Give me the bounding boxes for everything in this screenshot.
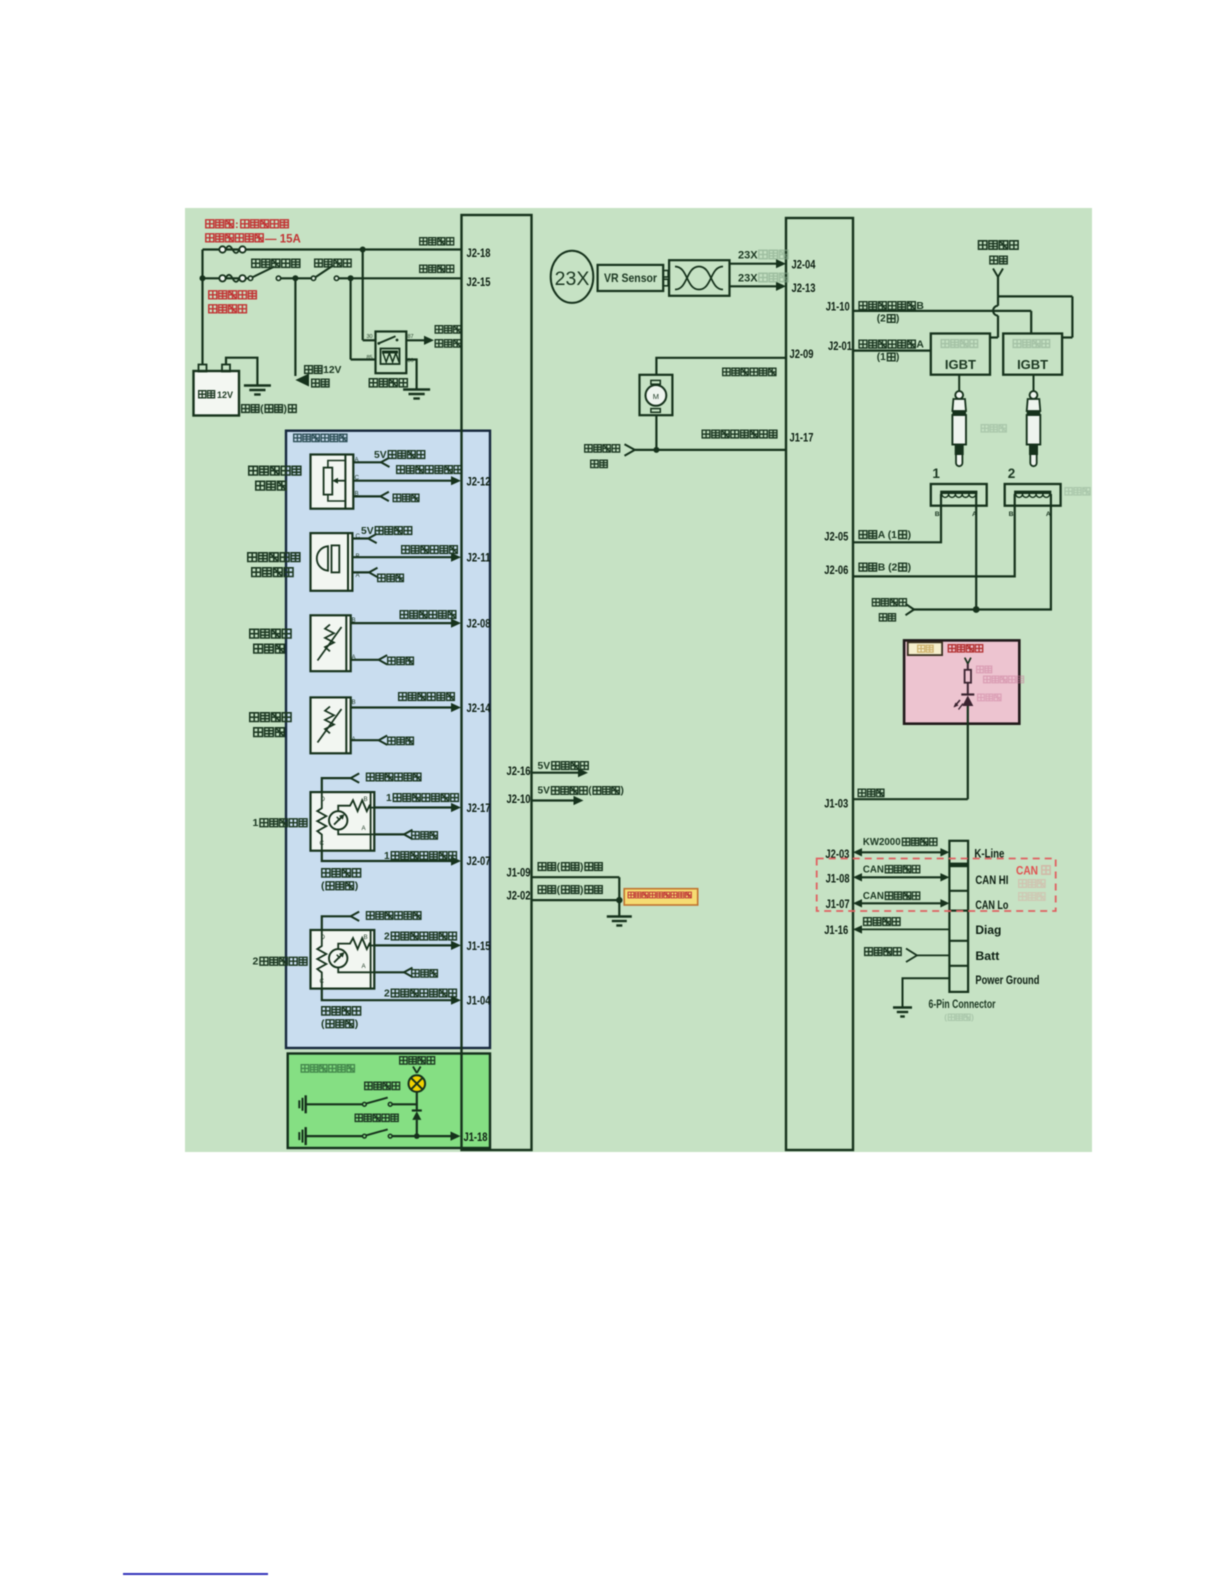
note single point ground (yellow) — [624, 889, 698, 905]
svg-text:KW2000: KW2000 — [863, 837, 901, 848]
label 摩车12V电源 — [305, 365, 342, 387]
sensor O2 #2 2缸氧传感器 label — [253, 956, 308, 968]
svg-text:CAN: CAN — [1016, 866, 1038, 878]
svg-text:(: ( — [557, 885, 561, 896]
wire pump control J2-09 — [656, 358, 786, 375]
pin J1-15 — [467, 939, 491, 953]
wire CAN low J1-07 — [853, 899, 949, 907]
wire O2#2 relay feed — [322, 912, 359, 930]
pin J1-16 — [824, 923, 848, 937]
label 信号地 (TPS) — [393, 494, 419, 501]
svg-text:5V: 5V — [361, 526, 374, 537]
svg-text:J2-06: J2-06 — [824, 563, 848, 577]
pin J2-06 — [824, 563, 848, 577]
label 主继电器输出 (top) — [435, 326, 461, 347]
label 5V参考电压接地（信号地） — [538, 786, 624, 797]
svg-text:CAN HI: CAN HI — [975, 873, 1008, 887]
svg-text:D: D — [321, 796, 326, 803]
svg-text:12V: 12V — [217, 390, 233, 400]
svg-text:J2-18: J2-18 — [467, 246, 491, 260]
svg-text:J2-13: J2-13 — [792, 281, 816, 295]
wire MAP signal ground — [352, 568, 377, 577]
spark plug #2 — [1027, 375, 1041, 467]
wire 5V ref out — [532, 768, 589, 777]
svg-text:30: 30 — [367, 334, 373, 340]
wire system ground 1 — [532, 876, 620, 878]
svg-text:5V: 5V — [538, 761, 551, 772]
wire injector2 B to J2-06 — [853, 494, 1015, 576]
wire resistor to LED — [967, 683, 969, 694]
wire cluster lamp — [967, 664, 969, 670]
label 信号地 (MAP) — [378, 574, 404, 581]
wire relay pin86 to ground — [406, 360, 416, 390]
svg-text:J1-18: J1-18 — [464, 1130, 488, 1144]
diagram background — [185, 208, 1092, 1152]
sensor O2 #1 symbol — [311, 792, 375, 851]
label 2缸氧传感器信号 — [384, 931, 456, 942]
wire system ground 2 — [532, 877, 623, 916]
sensor CHT symbol — [311, 697, 357, 753]
pin J2-18 — [467, 246, 491, 260]
wire O2#1 signal to J2-17 — [374, 803, 461, 812]
svg-text:IGBT: IGBT — [1017, 357, 1048, 372]
wire pump return — [635, 415, 786, 453]
label 主继电器输出 (pump) — [585, 445, 620, 468]
label KW2000串行数据 — [863, 837, 937, 848]
wire tap motorcycle 12V — [294, 278, 296, 376]
svg-text:(: ( — [321, 1018, 325, 1030]
label 点火线圈驱动B — [859, 301, 924, 325]
note fuse rating (red) — [206, 219, 301, 246]
svg-text:): ) — [355, 1018, 359, 1030]
svg-text:B: B — [935, 511, 940, 518]
pin J1-10 — [826, 300, 850, 314]
svg-text:): ) — [896, 314, 899, 325]
switch input box — [288, 1054, 490, 1149]
svg-text:1: 1 — [932, 466, 940, 481]
wire to relay pin30 — [363, 250, 376, 341]
label 1缸氧传感器信号 — [386, 793, 458, 804]
label 5V参考电压 (MAP) — [361, 526, 412, 537]
pin J2-02 — [507, 889, 531, 903]
label 1缸氧传感器加热 — [384, 851, 456, 862]
wire main relay to injectors — [914, 494, 1051, 613]
svg-text:): ) — [908, 530, 911, 541]
svg-text:J2-07: J2-07 — [467, 854, 491, 868]
svg-text:J1-15: J1-15 — [467, 939, 491, 953]
wire ignition power (to J2-15) — [203, 266, 462, 282]
label 节气门位置信号 — [397, 466, 462, 474]
label CAN线信号高 — [863, 864, 920, 875]
svg-text:1: 1 — [386, 793, 392, 804]
label 油泵控制信号 — [723, 368, 776, 375]
svg-text:CAN: CAN — [863, 864, 884, 875]
svg-text:J2-08: J2-08 — [467, 617, 491, 631]
svg-text::: : — [235, 219, 239, 231]
svg-text:Power Ground: Power Ground — [975, 973, 1039, 987]
pin J2-14 — [467, 701, 491, 715]
wire O2#1 relay feed — [322, 773, 359, 792]
relay 主继电器 — [367, 332, 414, 374]
svg-text:): ) — [908, 563, 911, 574]
sensor IAT 进气温度传感器 label — [250, 629, 291, 653]
wire power ground — [903, 978, 950, 1007]
pin J1-07 — [826, 897, 850, 911]
svg-text:J2-05: J2-05 — [824, 530, 848, 544]
sensor IAT symbol — [311, 615, 357, 671]
svg-text:J1-16: J1-16 — [824, 923, 848, 937]
ground (diagnostic) — [893, 1008, 912, 1017]
wire relay output 87 — [406, 339, 424, 341]
instrument box — [904, 640, 1019, 723]
pin J2-12 — [467, 475, 491, 489]
wire battery feed — [200, 250, 206, 365]
label 信号地 (O2#1) — [412, 832, 438, 839]
wire MAP signal to J2-11 — [352, 553, 461, 562]
label 2缸氧传感器加热 — [384, 988, 456, 999]
svg-text:): ) — [971, 1012, 974, 1022]
label 氧传感器(加热型) #2 — [321, 1007, 361, 1030]
svg-text:1: 1 — [253, 817, 259, 829]
sensor O2 #1 1缸氧传感器 label — [253, 817, 308, 829]
connector nub — [663, 271, 668, 286]
chassis ground (clutch switch) — [299, 1127, 305, 1145]
label 喷嘴A (1缸) — [859, 530, 911, 541]
wire O2#2 signal ground — [374, 968, 412, 977]
svg-text:): ) — [896, 352, 899, 363]
wire relay feed to IGBTs — [990, 277, 1072, 338]
label 信号地 (O2#2) — [412, 970, 438, 977]
svg-text:1: 1 — [384, 851, 390, 862]
ground (relay) — [403, 390, 430, 399]
pin J2-04 — [792, 258, 816, 272]
svg-text:J1-09: J1-09 — [507, 866, 531, 880]
label 电瓶电源 (Batt) — [865, 948, 901, 956]
indicator lamp — [409, 1075, 426, 1092]
wire O2#2 signal to J1-15 — [374, 941, 461, 950]
ECU connector column J2/J1 (right) — [786, 218, 853, 1150]
svg-text:): ) — [580, 862, 583, 873]
wire MAP 5V ref — [352, 534, 376, 543]
title 模拟信号输入 — [294, 434, 347, 441]
label 接插件 (faint) — [944, 1012, 974, 1022]
feed chevron (cluster) — [965, 658, 971, 664]
sensor MAP symbol — [311, 533, 361, 591]
arrow to J1-18 — [451, 1132, 461, 1141]
svg-text:B: B — [364, 796, 368, 803]
pin J2-13 — [792, 281, 816, 295]
svg-text:IGBT: IGBT — [945, 357, 976, 372]
svg-text:5V: 5V — [538, 786, 551, 797]
svg-text:): ) — [621, 786, 624, 797]
label 空档开关 — [365, 1082, 400, 1089]
svg-text:6-Pin Connector: 6-Pin Connector — [929, 997, 996, 1011]
pin J2-05 — [824, 530, 848, 544]
svg-text:): ) — [580, 885, 583, 896]
label 电源（系统）搭地 — [538, 862, 602, 873]
pin J2-10 — [507, 792, 531, 806]
label 缸头温度信号 — [399, 693, 455, 701]
svg-text:J2-09: J2-09 — [790, 347, 814, 361]
svg-text:J2-14: J2-14 — [467, 701, 491, 715]
pin J2-11 — [467, 551, 491, 565]
svg-text:23X: 23X — [555, 268, 590, 290]
label 诊断开关 — [864, 918, 900, 926]
switch kill 熄火开关 — [315, 259, 351, 267]
switch ignition main 点火总开关 — [252, 259, 300, 267]
twisted pair box — [669, 260, 729, 296]
svg-text:M: M — [653, 392, 659, 401]
svg-text:J1-07: J1-07 — [826, 897, 850, 911]
svg-text:J2-12: J2-12 — [467, 475, 491, 489]
wire CAN high J1-08 — [853, 873, 949, 881]
wire TPS signal to J2-12 — [353, 476, 461, 485]
label 5V参考电压 (TPS) — [374, 450, 425, 461]
wire coil drive A J2-01 — [853, 350, 931, 352]
label 点火线圈驱动A — [859, 340, 924, 364]
hyperlink underline — [123, 1573, 268, 1575]
pin J1-17 — [790, 431, 814, 445]
wire diode to J1-18 node — [414, 1120, 420, 1139]
pin label CAN HI — [975, 873, 1008, 887]
feed chevron (ign relay) — [993, 269, 1003, 278]
wire coil drive B J1-10 — [853, 311, 1031, 334]
injector #2 (喷嘴B) — [1005, 484, 1061, 518]
label 信号地 (CHT) — [388, 737, 414, 744]
svg-text:(: ( — [557, 862, 561, 873]
svg-text:D: D — [321, 934, 326, 941]
wire O2#1 heater to J2-07 — [322, 851, 461, 866]
label 点火电源 — [420, 265, 454, 272]
wire battery power (Batt pin) — [917, 954, 949, 956]
label 电瓶电源 — [420, 238, 454, 245]
feed chevron relay output (pump) — [625, 444, 635, 456]
svg-text:B: B — [916, 301, 924, 312]
fuel pump motor — [640, 375, 673, 415]
svg-text:87: 87 — [408, 334, 414, 340]
svg-text:J2-02: J2-02 — [507, 889, 531, 903]
svg-text:): ) — [284, 404, 287, 415]
label 离合器开关 — [355, 1114, 398, 1121]
feed chevron (lamp) — [413, 1067, 421, 1074]
wire to relay pin85 — [351, 278, 376, 359]
svg-text:J1-04: J1-04 — [467, 994, 491, 1008]
note spare fuse (red) — [209, 291, 256, 313]
ignition coil IGBT #2 — [1003, 334, 1062, 375]
switch neutral 空档开关 — [306, 1098, 417, 1107]
label 油泵控制信号回路 — [702, 430, 777, 438]
label 点火电源 (lamp feed) — [400, 1057, 435, 1064]
label 主继电器输出 (O2#2) — [367, 912, 421, 920]
switch clutch 离合器开关 — [306, 1129, 452, 1138]
label 电源（系统）接地 — [538, 885, 602, 896]
wire LED to J1-03 — [853, 706, 968, 799]
label 点火电源 (cluster, red) — [948, 645, 982, 652]
svg-text:5V: 5V — [374, 450, 387, 461]
label 主继电器输出 (O2#1) — [367, 773, 421, 781]
label cylinder 1 — [932, 466, 940, 481]
tag 仪表 — [908, 642, 942, 655]
label 6-Pin Connector — [929, 997, 996, 1011]
wire 23X signal - to J2-13 — [730, 282, 787, 291]
arrow relay output — [424, 336, 434, 345]
label 电源(系统)地 — [242, 404, 297, 415]
pin J1-04 — [467, 994, 491, 1008]
sensor CHT 缸头温度传感器 label — [250, 713, 291, 737]
svg-text:12V: 12V — [323, 365, 341, 376]
label 主继电器输出 (ign) — [979, 241, 1019, 264]
label CAN线信号低 — [863, 891, 920, 902]
sensor O2 #2 symbol — [311, 930, 375, 989]
sensor MAP 进气压力温度传感器 label — [248, 553, 300, 577]
svg-text:(: ( — [321, 880, 325, 892]
svg-text:2: 2 — [1008, 466, 1016, 481]
label 喷嘴B (2缸) — [859, 563, 911, 574]
wire 23X signal + to J2-04 — [730, 259, 787, 268]
LED fault lamp — [954, 695, 975, 710]
svg-text:J2-15: J2-15 — [467, 275, 491, 289]
svg-text:(1: (1 — [877, 352, 886, 363]
chassis ground (neutral switch) — [299, 1095, 305, 1113]
svg-text:A (1: A (1 — [878, 530, 897, 541]
label 氧传感器(加热型) #1 — [321, 869, 361, 892]
svg-text:C: C — [320, 978, 325, 985]
label 主继电器 (relay) — [369, 379, 407, 387]
svg-text:C: C — [320, 840, 325, 847]
svg-text:J2-01: J2-01 — [828, 339, 852, 353]
wire battery negative to ground — [226, 358, 257, 386]
svg-text:2: 2 — [384, 931, 390, 942]
sensor TPS 节气门位置传感器 label — [249, 466, 301, 490]
battery 电瓶12V — [194, 365, 240, 416]
pin label Diag — [975, 923, 1001, 937]
wire diag switch J1-16 — [853, 925, 949, 933]
svg-text:B (2: B (2 — [878, 563, 898, 574]
wire IAT signal to J2-08 — [351, 619, 461, 628]
pin J2-09 — [790, 347, 814, 361]
label CAN bus (red) — [1016, 866, 1050, 901]
6-pin connector body — [949, 841, 968, 992]
svg-text:J2-17: J2-17 — [467, 801, 491, 815]
svg-text:J1-10: J1-10 — [826, 300, 850, 314]
pin J1-08 — [826, 872, 850, 886]
wire IAT signal ground — [351, 655, 388, 664]
wire 5V ref ground out — [532, 796, 584, 805]
VR sensor box — [598, 265, 664, 291]
pin label Batt — [975, 949, 999, 963]
svg-text:A: A — [916, 340, 924, 351]
svg-text:B: B — [364, 934, 368, 941]
pin J1-09 — [507, 866, 531, 880]
resistor (lamp) — [965, 670, 971, 683]
svg-text:— 15A: — 15A — [265, 234, 301, 246]
label 信号地 (IAT) — [388, 657, 414, 664]
svg-text:J2-11: J2-11 — [467, 551, 491, 565]
ground (system) — [607, 917, 632, 926]
wire K-line J2-03 — [853, 848, 949, 856]
analog input box — [286, 431, 490, 1048]
label 23X signal - — [738, 272, 788, 284]
label 5V参考电压 (out) — [538, 761, 589, 772]
svg-text:85: 85 — [367, 355, 373, 361]
pin label CAN Lo — [975, 898, 1008, 912]
injector #1 (喷嘴A) — [931, 484, 987, 518]
ECU connector column J2/J1 (left) — [462, 215, 532, 1150]
pin J2-16 — [507, 764, 531, 778]
svg-text:J1-08: J1-08 — [826, 872, 850, 886]
label 故障灯 — [858, 789, 884, 796]
pin J2-15 — [467, 275, 491, 289]
diode — [412, 1111, 422, 1120]
svg-text:(: ( — [260, 404, 264, 415]
pin label K-Line — [974, 847, 1004, 861]
svg-text:J1-03: J1-03 — [824, 797, 848, 811]
pin J1-03 — [824, 797, 848, 811]
wire TPS signal ground — [353, 492, 389, 501]
svg-text:J2-10: J2-10 — [507, 792, 531, 806]
svg-text:J2-04: J2-04 — [792, 258, 816, 272]
label 火花塞 (faint) — [981, 425, 1006, 432]
svg-text:CAN: CAN — [863, 891, 884, 902]
svg-text:(2: (2 — [877, 314, 886, 325]
wire injector1 B to J2-05 — [853, 494, 941, 542]
feed chevron relay (injectors) — [906, 604, 915, 615]
pin J2-03 — [825, 847, 849, 861]
wire CHT signal ground — [351, 736, 388, 745]
ground (battery) — [244, 386, 271, 395]
wire O2#1 signal ground — [374, 830, 412, 839]
label cylinder 2 — [1008, 466, 1016, 481]
svg-text:Diag: Diag — [975, 923, 1001, 937]
ignition coil IGBT #1 — [931, 334, 990, 375]
pin J2-07 — [467, 854, 491, 868]
spark plug #1 — [952, 375, 966, 467]
wire O2#2 heater to J1-04 — [322, 989, 461, 1005]
pin label Power Ground — [975, 973, 1039, 987]
pin J2-17 — [467, 801, 491, 815]
wire battery power (to J2-18) — [203, 246, 462, 253]
feed chevron (Batt) — [906, 949, 917, 963]
svg-text:B: B — [1009, 511, 1014, 518]
label 进气压力信号 — [402, 546, 458, 554]
label 主继电器输出 (inj) — [872, 599, 906, 621]
sensor TPS symbol — [311, 455, 360, 509]
svg-text:23X: 23X — [738, 272, 758, 284]
svg-text:J2-16: J2-16 — [507, 764, 531, 778]
arrow motorcycle 12V output — [295, 374, 309, 387]
svg-text:(: ( — [944, 1012, 947, 1022]
svg-text:): ) — [355, 880, 359, 892]
label 进气温度信号 — [400, 611, 456, 619]
svg-text:23X: 23X — [738, 249, 758, 261]
title 开关信号输入 — [301, 1065, 354, 1072]
wire CHT signal to J2-14 — [351, 703, 461, 712]
svg-text:2: 2 — [384, 988, 390, 999]
note resistor value (faint) — [977, 666, 1024, 701]
svg-text:2: 2 — [253, 956, 259, 968]
pin J2-01 — [828, 339, 852, 353]
pin J1-18 — [464, 1130, 488, 1144]
svg-text:J1-17: J1-17 — [790, 431, 814, 445]
label 喷油器 (faint) — [1065, 488, 1090, 495]
svg-text:B: B — [352, 699, 356, 706]
label 23X signal + — [738, 249, 788, 261]
crank sensor circle 23X — [551, 251, 594, 303]
wire TPS 5V ref — [353, 458, 389, 467]
svg-text:CAN Lo: CAN Lo — [975, 898, 1008, 912]
wire lamp to diode — [416, 1092, 418, 1111]
svg-text:Batt: Batt — [975, 949, 999, 963]
